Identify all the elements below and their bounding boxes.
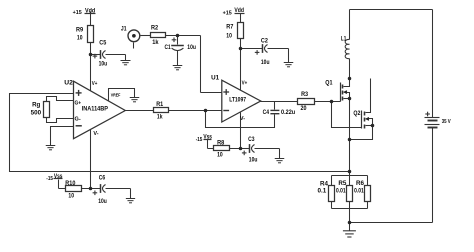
svg-text:35 V: 35 V <box>442 119 451 125</box>
svg-text:Q2: Q2 <box>353 110 360 117</box>
svg-text:10: 10 <box>68 192 74 199</box>
svg-text:10: 10 <box>77 34 83 41</box>
svg-text:R4: R4 <box>320 180 329 187</box>
svg-text:10: 10 <box>226 33 232 40</box>
svg-text:0.1: 0.1 <box>318 187 327 194</box>
svg-text:R9: R9 <box>76 26 84 33</box>
svg-text:R3: R3 <box>301 91 308 98</box>
svg-text:J1: J1 <box>121 26 127 33</box>
svg-text:V-: V- <box>240 116 246 122</box>
svg-text:L1: L1 <box>341 35 347 42</box>
svg-text:C1: C1 <box>165 44 172 51</box>
svg-text:0.01: 0.01 <box>336 187 346 194</box>
svg-text:C4: C4 <box>263 109 270 116</box>
svg-text:R6: R6 <box>356 180 365 187</box>
svg-text:Vdd: Vdd <box>85 9 95 15</box>
svg-text:R2: R2 <box>151 25 159 32</box>
svg-text:C6: C6 <box>99 175 106 182</box>
svg-text:1k: 1k <box>152 39 159 46</box>
svg-text:G+: G+ <box>75 100 82 106</box>
svg-text:0.22u: 0.22u <box>281 109 295 116</box>
svg-text:R1: R1 <box>156 101 163 108</box>
svg-text:Rg: Rg <box>32 102 40 109</box>
svg-text:INA114BP: INA114BP <box>82 105 108 112</box>
svg-text:+15: +15 <box>223 10 232 16</box>
svg-text:R10: R10 <box>65 180 76 187</box>
svg-text:Vss: Vss <box>203 135 212 141</box>
svg-text:G-: G- <box>75 117 82 123</box>
svg-text:U2: U2 <box>64 80 73 87</box>
svg-text:R8: R8 <box>217 139 225 146</box>
svg-text:V-: V- <box>93 131 99 137</box>
svg-text:10u: 10u <box>98 198 107 205</box>
svg-text:-15: -15 <box>196 137 203 143</box>
svg-text:Q1: Q1 <box>325 79 333 86</box>
svg-text:10u: 10u <box>99 61 108 68</box>
svg-text:Vss: Vss <box>54 174 63 180</box>
svg-text:10: 10 <box>217 152 223 159</box>
svg-text:C5: C5 <box>99 39 106 46</box>
svg-text:10u: 10u <box>187 44 196 51</box>
svg-text:V+: V+ <box>92 81 98 87</box>
svg-text:V+: V+ <box>242 81 248 87</box>
svg-text:U1: U1 <box>211 74 219 81</box>
svg-text:C3: C3 <box>248 136 255 143</box>
svg-text:10u: 10u <box>249 156 258 163</box>
svg-text:500: 500 <box>31 109 42 116</box>
svg-text:-15: -15 <box>46 176 53 182</box>
svg-text:20: 20 <box>301 105 307 112</box>
svg-text:VREF: VREF <box>111 92 121 97</box>
svg-text:+15: +15 <box>73 10 82 16</box>
svg-text:LT1097: LT1097 <box>229 97 246 104</box>
svg-text:0.01: 0.01 <box>354 187 364 194</box>
svg-text:10u: 10u <box>261 59 270 66</box>
svg-text:1k: 1k <box>157 114 163 121</box>
svg-text:Vdd: Vdd <box>234 8 244 14</box>
svg-text:C2: C2 <box>261 37 268 44</box>
svg-text:R7: R7 <box>226 23 234 30</box>
svg-text:R5: R5 <box>338 180 347 187</box>
